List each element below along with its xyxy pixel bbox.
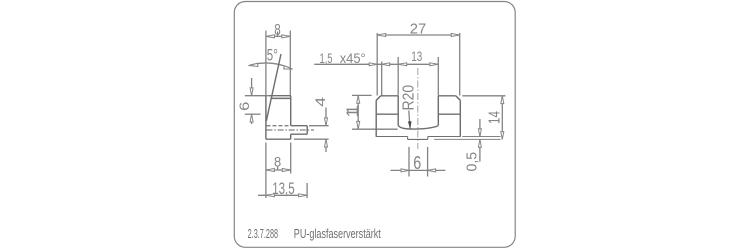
svg-text:PU-glasfaserverstärkt: PU-glasfaserverstärkt: [294, 227, 381, 241]
svg-text:1,5: 1,5: [320, 50, 333, 66]
svg-text:6: 6: [413, 153, 421, 173]
svg-text:8: 8: [274, 154, 281, 169]
svg-text:8: 8: [274, 22, 281, 39]
svg-text:4: 4: [313, 96, 328, 106]
svg-text:6: 6: [236, 101, 252, 110]
svg-text:14: 14: [487, 111, 504, 124]
svg-text:13: 13: [411, 49, 422, 64]
svg-text:13,5: 13,5: [272, 180, 295, 198]
svg-text:5°: 5°: [267, 46, 278, 64]
svg-text:x45°: x45°: [340, 50, 366, 66]
svg-text:0,5: 0,5: [464, 152, 481, 172]
svg-text:1: 1: [344, 108, 362, 117]
svg-text:R20: R20: [400, 84, 417, 110]
svg-text:2.3.7.288: 2.3.7.288: [248, 227, 279, 241]
svg-text:27: 27: [410, 21, 427, 37]
